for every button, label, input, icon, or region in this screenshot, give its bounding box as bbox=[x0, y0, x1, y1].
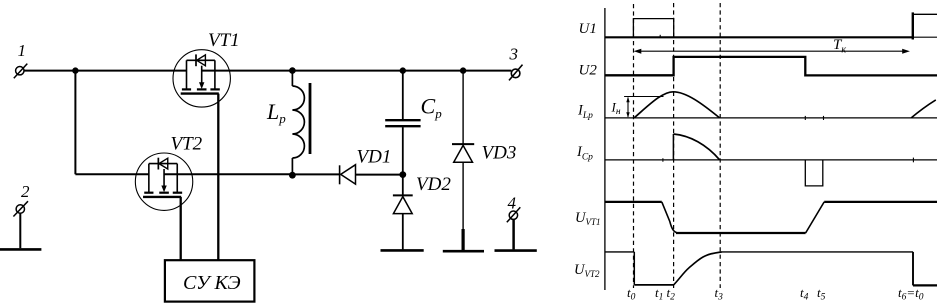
transistor VT2 bbox=[135, 134, 202, 211]
VT1 body bbox=[173, 50, 230, 107]
svg-text:4: 4 bbox=[508, 194, 517, 213]
VD2 body bbox=[402, 175, 404, 196]
wire VT2 source to Lp bottom bbox=[164, 173, 292, 175]
trace ILp bbox=[577, 92, 937, 121]
junction dot Lp top bbox=[289, 67, 296, 74]
junction dot VD3 top bbox=[460, 67, 466, 73]
wire VT2 gate lead down to control box bbox=[180, 197, 182, 260]
wire Cp top lead bbox=[402, 71, 404, 120]
wire VD3 branch bbox=[462, 71, 464, 144]
ticks t4 t5 on ILp axis bbox=[804, 116, 806, 120]
wire left drop from node A down bbox=[74, 71, 76, 175]
svg-text:VD1: VD1 bbox=[357, 147, 392, 168]
trace U1 bbox=[579, 12, 937, 39]
ILp sine pulse bbox=[634, 92, 720, 118]
svg-text:U1: U1 bbox=[579, 21, 597, 37]
ground under VD3 bbox=[443, 250, 484, 253]
wire Lp bottom to VD1 cathode bbox=[292, 173, 339, 175]
node C junction dot VD1/Cp/VD2 bbox=[399, 171, 406, 178]
capacitor Cp bbox=[385, 67, 442, 174]
VT2 body bbox=[135, 153, 192, 210]
svg-text:СУ КЭ: СУ КЭ bbox=[183, 272, 241, 294]
dashed line t2 bbox=[673, 3, 675, 288]
svg-text:2: 2 bbox=[21, 182, 30, 201]
ILp next cycle rise bbox=[911, 100, 936, 118]
ICp negative pulse bbox=[805, 160, 823, 186]
diode VD3 bbox=[452, 67, 516, 250]
inductor Lp bbox=[266, 67, 310, 178]
ground under terminal 2 bbox=[0, 248, 41, 251]
svg-text:VD3: VD3 bbox=[482, 143, 517, 164]
svg-text:VD2: VD2 bbox=[416, 174, 451, 195]
svg-text:1: 1 bbox=[18, 41, 27, 60]
In arrow bbox=[627, 98, 629, 117]
dashed line t0 bbox=[633, 4, 635, 288]
trace UVT1 bbox=[575, 202, 937, 233]
control unit box СУ КЭ bbox=[165, 260, 255, 301]
junction dot Cp top bbox=[400, 67, 406, 73]
node A junction dot at x=75 bbox=[72, 67, 78, 73]
terminal 4 bbox=[507, 194, 521, 250]
junction dot Lp bottom bbox=[289, 172, 296, 179]
VD1 body bbox=[339, 165, 341, 184]
svg-text:3: 3 bbox=[509, 45, 519, 64]
terminal 3 bbox=[509, 45, 523, 81]
terminal 1 bbox=[14, 41, 27, 78]
wire VD1 anode to node C bbox=[355, 174, 402, 176]
dashed line t3 bbox=[719, 3, 721, 288]
diode VD2 bbox=[393, 174, 451, 249]
In level line bbox=[624, 96, 663, 98]
terminal 2 bbox=[13, 182, 30, 248]
transistor VT1 bbox=[173, 30, 240, 107]
trace UVT2 bbox=[574, 252, 937, 286]
wire VT1 gate lead down to control box bbox=[217, 94, 219, 261]
wire top rail right (VT1 source to terminal 3) bbox=[202, 70, 512, 72]
trace U2 bbox=[579, 57, 937, 79]
wire lower-left horizontal to VT2 bbox=[75, 173, 148, 175]
diode VD1 bbox=[340, 147, 392, 185]
ground under terminal 4 bbox=[495, 249, 537, 252]
svg-text:VT2: VT2 bbox=[171, 134, 203, 155]
core bar of Lp bbox=[309, 83, 312, 154]
time labels bbox=[627, 285, 924, 303]
common vertical axis bbox=[604, 8, 606, 290]
svg-text:VT1: VT1 bbox=[208, 30, 240, 51]
Tk period arrow bbox=[634, 37, 910, 56]
wire top rail left (terminal 1 to VT1 drain) bbox=[24, 70, 186, 72]
ground under VD2 bbox=[381, 249, 424, 252]
wire Lp top lead bbox=[291, 71, 293, 86]
svg-text:U2: U2 bbox=[579, 63, 598, 79]
trace ICp bbox=[576, 134, 937, 186]
